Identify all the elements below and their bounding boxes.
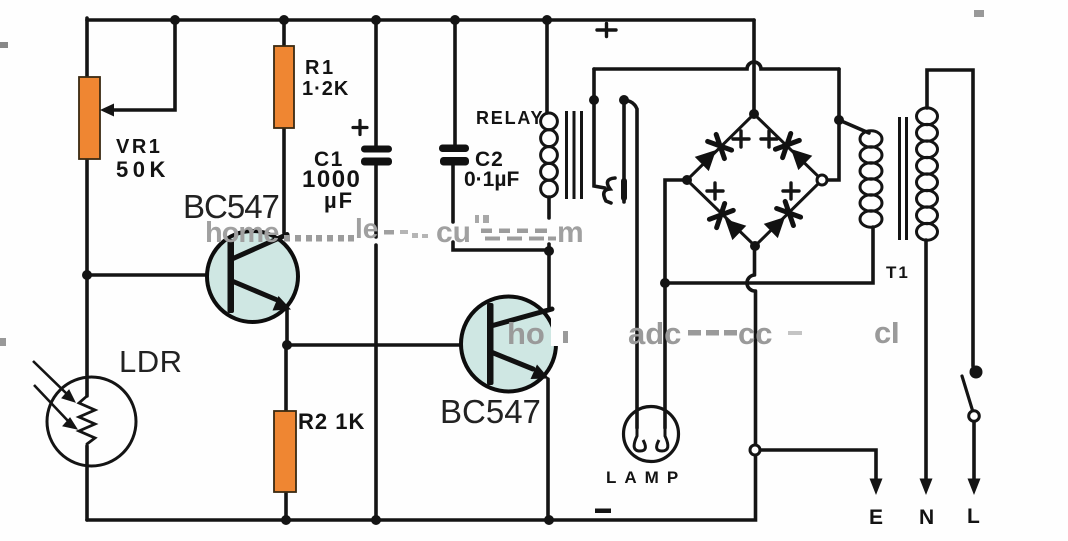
wire bottom rail to bridge bottom corner [87,246,756,520]
svg-text:R1: R1 [305,57,336,79]
wire relay bottom to Q2 collector (broken by watermark eraser) [547,197,551,309]
watermark row1 fragment home [205,217,279,249]
wire left rail upper [85,18,89,396]
svg-text:BC547: BC547 [183,188,279,225]
wire relay contact common pole [622,101,626,202]
node bottom rail junctions [281,515,554,525]
capacitor C1 plus mark [353,121,367,135]
switch S1 lower terminal ring [969,411,980,422]
svg-text:T1: T1 [886,263,910,282]
node emitter-base junction [282,340,292,350]
potentiometer VR1 wiper arrow [100,104,114,117]
svg-text:RELAY: RELAY [476,108,544,128]
svg-text:L: L [967,505,982,528]
svg-text:50K: 50K [116,157,170,182]
relay coil [541,113,558,197]
diode D3 lower-left [709,203,748,242]
wire secondary bottom to N arrow [924,240,928,479]
svg-text:VR1: VR1 [116,136,162,158]
node relay contact common [619,95,629,105]
transistor Q2 base bar [487,303,494,385]
svg-text:adc: adc [628,316,681,351]
wire lamp node to transformer primary bottom [665,227,873,283]
wire E branch [760,450,876,480]
wire Q2 emitter to bottom rail [546,379,550,520]
node bridge right vertex open [817,175,827,185]
transistor Q2 collector stroke [491,309,552,326]
svg-text:ho: ho [507,316,545,351]
node bridge top vertex [749,109,759,119]
resistor R1 body [274,46,294,128]
wire Q1 base from left rail [87,273,206,277]
transformer secondary coil [917,108,938,240]
svg-text:R2 1K: R2 1K [298,409,365,434]
diode D4 lower-right [762,201,801,240]
svg-text:µF: µF [324,188,354,213]
watermark row1 dash rows [481,229,556,241]
switch S1 arm [962,376,973,412]
svg-text:cu: cu [436,216,471,249]
bridge rectifier edges [687,114,822,246]
node primary top junction [834,115,844,125]
svg-text:m: m [557,216,584,249]
transistor Q2 BC547 body [461,297,556,392]
capacitor C1 plates [361,146,392,153]
wire second rail down to bridge right vertex [827,69,839,180]
wire left rail lower [85,446,89,520]
wire Q1 emitter down [285,309,289,345]
svg-text:le: le [355,213,378,244]
wire C2 bottom elbow to relay node (broken by watermark eraser) [453,165,549,250]
arrow terminal E [870,479,883,496]
minus mark bottom rail [595,509,611,514]
plus mark on second rail [597,24,616,37]
watermark row2 eraser over Q2 edge [551,316,593,346]
node E branch ring junction [750,445,760,455]
svg-text:c: c [874,315,891,350]
svg-text:N: N [919,506,936,529]
svg-text:E: E [869,506,885,529]
relay contact armature squiggle [604,178,615,203]
wire bridge top to top rail [752,20,756,114]
LDR circle [47,377,136,466]
svg-text:1·2K: 1·2K [302,78,349,100]
transformer primary coil [860,131,882,227]
wire emitter node to Q2 base [287,343,461,347]
lamp filament loops [634,425,668,451]
svg-text:LAMP: LAMP [606,468,686,487]
resistor R2 body [274,411,296,492]
transistor Q1 BC547 body [207,231,298,322]
wire secondary top to L line [927,70,973,366]
wire lamp left from contact common [624,100,637,428]
watermark row2 dashes [688,330,737,336]
node bridge left vertex [682,175,692,185]
LDR light arrow 2 [34,385,69,422]
scan noise marks [974,10,984,17]
wire top positive rail [87,18,754,22]
arrow terminal N [920,479,933,496]
wire R1 top [282,20,286,47]
wire C1 bottom (broken by watermark eraser) [374,165,378,520]
svg-text:cc: cc [738,316,772,351]
watermark row1 dotted fragments [284,235,354,242]
relay contact common thickening [621,181,627,198]
wire VR1 wiper to top rail [107,20,175,110]
capacitor C2 plates [439,145,469,153]
wire C2 top [453,20,457,145]
wire relay contact left pole [594,69,605,188]
wire L below switch [972,421,976,479]
wire second positive rail with hop over bridge wire [594,62,839,69]
wire transformer primary top connect [839,120,869,133]
node bridge bottom vertex [750,241,760,251]
label VR1 [116,57,982,529]
relay core lines [567,111,582,199]
node top rail junctions [170,15,552,25]
transistor Q1 emitter stroke with arrow [232,281,276,300]
plus marks inside bridge [707,131,799,199]
node lamp right junction [660,278,670,288]
lamp bulb circle [624,407,679,462]
diode D1 upper-left [693,134,732,173]
switch S1 upper terminal dot [970,366,983,379]
svg-text:0·1µF: 0·1µF [464,168,519,191]
diode D2 upper-right [775,133,814,172]
transistor Q1 base bar [228,239,235,313]
svg-text:BC547: BC547 [440,393,541,430]
wire R1 bottom to Q1 collector [282,128,286,233]
transistor Q1 collector stroke [232,235,287,260]
arrow terminal L [968,479,981,496]
transformer core lines [900,117,907,240]
node C2-relay junction [544,246,554,256]
LDR zigzag element [79,396,95,446]
wire node to R2 top [284,345,288,411]
wire relay top [545,20,549,113]
wire C1 top [374,20,378,146]
svg-text:LDR: LDR [119,344,183,379]
potentiometer VR1 body [79,77,100,159]
wire bridge left vertex to lamp right [665,180,687,428]
LDR light arrow 1 [33,361,68,395]
wire R2 bottom to bottom rail [284,492,288,520]
transistor Q2 emitter stroke with arrow [491,352,533,369]
node Q1 base on left rail [82,270,92,280]
node relay contact left [589,95,599,105]
